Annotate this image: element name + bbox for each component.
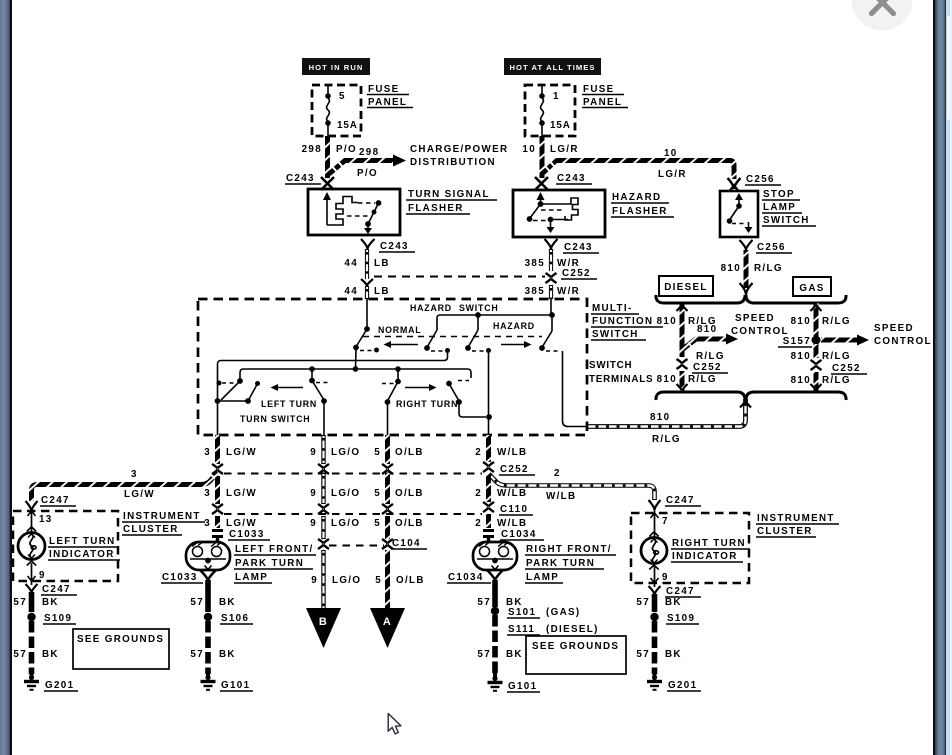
connector C256 label (above stop lamp switch) xyxy=(745,174,781,185)
svg-text:385: 385 xyxy=(525,258,545,269)
svg-text:BK: BK xyxy=(42,597,59,608)
svg-text:2: 2 xyxy=(475,488,482,499)
svg-text:C247: C247 xyxy=(666,495,695,506)
splice S106 label xyxy=(220,613,253,624)
label LEFT TURN INDICATOR xyxy=(48,536,120,560)
svg-text:1: 1 xyxy=(553,91,560,102)
wire 810 R/LG from brace down to multifunction switch xyxy=(586,399,751,427)
svg-text:5: 5 xyxy=(374,447,381,458)
svg-text:C243: C243 xyxy=(564,242,593,253)
svg-text:810: 810 xyxy=(657,374,677,385)
wire label 10 xyxy=(522,144,536,155)
pin label 13 xyxy=(39,514,53,525)
wire label P/O (branch) xyxy=(357,168,378,179)
dashed interconnect row 2 xyxy=(224,513,482,515)
turn switch contact R1 xyxy=(382,369,401,405)
wire 810 R/LG from stop lamp switch xyxy=(740,250,753,295)
svg-text:C247: C247 xyxy=(42,584,71,595)
connector C252 label (W/LB) xyxy=(499,464,535,475)
label LEFT FRONT/ PARK TURN LAMP xyxy=(234,544,316,583)
svg-text:LG/R: LG/R xyxy=(658,169,687,180)
wire out of right cluster + pin 9 xyxy=(651,565,659,587)
connector C110 label xyxy=(499,504,533,515)
connector C243 label below flasher xyxy=(379,241,415,252)
wire 810 R/LG gas column middle xyxy=(814,344,819,358)
svg-text:CLUSTER: CLUSTER xyxy=(757,526,813,537)
turn switch contact L1 xyxy=(217,378,243,400)
svg-text:LB: LB xyxy=(374,286,390,297)
svg-text:57: 57 xyxy=(190,649,204,660)
wire label 57 (lamp upper) xyxy=(190,597,204,608)
wire 2 W/LB jog to right C247 xyxy=(489,474,655,500)
svg-text:2: 2 xyxy=(475,518,482,529)
svg-text:R/LG: R/LG xyxy=(822,316,851,327)
wire 2 W/LB column segment 2 xyxy=(486,474,491,502)
svg-text:FUSE: FUSE xyxy=(368,84,400,95)
svg-text:S109: S109 xyxy=(44,613,72,624)
wire 3 LG/W column segment 1 xyxy=(215,435,220,464)
label STOP LAMP SWITCH xyxy=(762,189,816,226)
svg-text:INDICATOR: INDICATOR xyxy=(49,549,115,560)
turn switch contact L2 xyxy=(309,369,329,404)
wire label 57 (left cluster lower) xyxy=(13,649,27,660)
svg-text:W/LB: W/LB xyxy=(497,447,527,458)
value label 15A (right) xyxy=(550,120,571,131)
wire label 810 (gas middle) xyxy=(791,351,811,362)
svg-text:CLUSTER: CLUSTER xyxy=(123,524,179,535)
wire labels 9 LG/O rows xyxy=(310,447,361,586)
connector C243 X symbol (hazard) xyxy=(535,177,548,190)
wire LG/O exit inside box xyxy=(323,401,325,435)
splice S109 dot (right) xyxy=(650,613,658,621)
connector symbol on LB wire xyxy=(361,279,373,286)
svg-text:5: 5 xyxy=(339,91,346,102)
wire arrow to speed control (gas) xyxy=(821,335,869,346)
switch contact B xyxy=(424,330,450,353)
connector C256 Y symbol below stop lamp switch xyxy=(740,240,753,250)
svg-text:DIESEL: DIESEL xyxy=(664,282,708,293)
connector symbol LG/W row2 xyxy=(212,504,223,514)
splice S109 label (left) xyxy=(43,613,76,624)
svg-text:C252: C252 xyxy=(562,268,591,279)
svg-text:C1033: C1033 xyxy=(162,572,198,583)
svg-text:PANEL: PANEL xyxy=(368,97,407,108)
value label 15A xyxy=(337,120,358,131)
wire label BK (lamp upper) xyxy=(219,597,236,608)
wire 3 LG/W column segment 3 xyxy=(215,516,220,528)
svg-text:3: 3 xyxy=(131,469,138,480)
svg-text:5: 5 xyxy=(374,518,381,529)
wire normal output run (line A) xyxy=(218,351,448,400)
svg-text:LG/O: LG/O xyxy=(331,447,360,458)
connector C243 label (left) xyxy=(285,173,321,184)
svg-text:LAMP: LAMP xyxy=(526,572,559,583)
svg-text:10: 10 xyxy=(522,144,536,155)
wire label R/LG (diesel arrow) xyxy=(696,351,725,362)
wire label 810 (diesel upper) xyxy=(657,316,677,327)
wire label P/O xyxy=(336,144,357,155)
connector C1034 label xyxy=(500,529,544,540)
wire hazard output to W/LB column xyxy=(488,351,490,435)
wire label W/LB (row 2) xyxy=(497,488,527,499)
splice S101 dot xyxy=(491,607,499,615)
stop lamp switch internals xyxy=(727,193,753,233)
svg-text:DISTRIBUTION: DISTRIBUTION xyxy=(410,157,496,168)
wire 57 BK (left lamp lower) xyxy=(205,621,211,674)
label SPEED CONTROL (right) xyxy=(874,323,932,347)
svg-text:LAMP: LAMP xyxy=(763,202,796,213)
wire label 810 (diesel lower) xyxy=(657,374,677,385)
wire branch 10 LG/R to stop lamp switch xyxy=(543,161,734,180)
left turn indicator lamp xyxy=(18,527,45,566)
pin label 1 xyxy=(553,91,560,102)
fuse 1 15A symbol xyxy=(539,85,545,136)
label SPEED CONTROL (center) xyxy=(731,313,789,337)
connector C247 label (right jog) xyxy=(665,495,701,506)
wire label BK (left cluster upper) xyxy=(42,597,59,608)
svg-text:57: 57 xyxy=(477,649,491,660)
wire label 385 (second) xyxy=(525,286,545,297)
svg-text:LAMP: LAMP xyxy=(235,572,268,583)
svg-text:CHARGE/POWER: CHARGE/POWER xyxy=(410,144,508,155)
dashed interconnect C104 row xyxy=(329,545,384,547)
svg-text:298: 298 xyxy=(302,144,322,155)
wire label LG/R (branch) xyxy=(658,169,687,180)
svg-text:2: 2 xyxy=(554,468,561,479)
connector C104 label xyxy=(391,538,427,549)
svg-text:INSTRUMENT: INSTRUMENT xyxy=(757,513,835,524)
right turn indicator lamp xyxy=(641,532,667,570)
fuse 5 15A symbol xyxy=(325,85,331,136)
brace bottom of speed control section xyxy=(656,392,846,400)
power label HOT IN RUN xyxy=(302,58,370,75)
arrow A (to rear lamps) xyxy=(370,608,405,648)
wire label 810 (gas upper) xyxy=(791,316,811,327)
wire 385 W/R upper segment xyxy=(549,249,553,271)
svg-text:810: 810 xyxy=(721,263,741,274)
connector C247 label (left jog) xyxy=(40,495,76,506)
svg-text:G201: G201 xyxy=(668,680,697,691)
svg-text:9: 9 xyxy=(310,518,317,529)
wire label 57 (right lamp upper) xyxy=(477,597,491,608)
label box DIESEL xyxy=(659,276,713,296)
connector C247 Y symbol (left) xyxy=(26,501,38,511)
svg-text:SEE GROUNDS: SEE GROUNDS xyxy=(532,641,619,652)
svg-text:R/LG: R/LG xyxy=(822,351,851,362)
svg-text:RIGHT FRONT/: RIGHT FRONT/ xyxy=(526,544,612,555)
pin label 9 (right cluster) xyxy=(662,572,669,583)
label box GAS xyxy=(793,277,831,296)
svg-text:C252: C252 xyxy=(832,363,861,374)
wire label 810 (bottom run) xyxy=(650,412,670,423)
svg-text:O/LB: O/LB xyxy=(395,447,424,458)
svg-text:810: 810 xyxy=(791,316,811,327)
svg-text:LG/W: LG/W xyxy=(226,447,257,458)
turn signal flasher internals xyxy=(323,192,381,234)
connector C247 Y below right cluster xyxy=(649,586,661,595)
connector C247 label below right cluster xyxy=(665,586,701,597)
label SWITCH TERMINALS xyxy=(589,360,653,385)
svg-text:9: 9 xyxy=(310,447,317,458)
wire 57 BK (left cluster lower) xyxy=(29,621,35,674)
svg-text:STOP: STOP xyxy=(763,189,795,200)
instrument cluster dashed box (left) xyxy=(13,511,118,581)
dashed interconnect between LB and W/R wires xyxy=(374,276,545,278)
svg-text:C252: C252 xyxy=(693,362,722,373)
wire label W/R xyxy=(557,258,580,269)
svg-text:G201: G201 xyxy=(45,680,74,691)
switch contact A (normal feed) xyxy=(353,329,379,369)
arrow left (hazard switch normal) xyxy=(384,341,419,348)
svg-text:BK: BK xyxy=(219,597,236,608)
connector symbols LG/O column xyxy=(318,464,329,549)
wire label W/R (second) xyxy=(557,286,580,297)
svg-text:3: 3 xyxy=(204,518,211,529)
connector Y below left lamp xyxy=(201,571,216,582)
wire labels 5 O/LB rows xyxy=(374,447,425,586)
label RIGHT TURN INDICATOR xyxy=(671,538,750,562)
svg-text:BK: BK xyxy=(42,649,59,660)
dashed normal/hazard line xyxy=(363,336,542,338)
wire label BK (left cluster lower) xyxy=(42,649,59,660)
svg-text:BK: BK xyxy=(506,649,523,660)
svg-text:HAZARD: HAZARD xyxy=(410,303,452,313)
svg-text:57: 57 xyxy=(190,597,204,608)
wire out of left cluster + pin 9 xyxy=(28,563,36,585)
svg-text:INDICATOR: INDICATOR xyxy=(672,551,738,562)
wire 385 W/R lower segment xyxy=(549,285,553,299)
svg-text:A: A xyxy=(383,616,392,628)
svg-text:FUSE: FUSE xyxy=(583,84,615,95)
pin label 5 xyxy=(339,91,346,102)
wire 810 R/LG diesel column lower xyxy=(677,371,688,392)
wire 57 BK (right lamp upper) xyxy=(492,580,498,607)
wire 57 BK (right lamp lower) xyxy=(492,615,498,675)
wire label 810 (gas lower) xyxy=(791,375,811,386)
svg-text:44: 44 xyxy=(344,286,358,297)
connector symbol LG/W row1 xyxy=(212,464,223,474)
wire arrow 810 R/LG to speed control (diesel) xyxy=(683,334,738,350)
svg-text:810: 810 xyxy=(657,316,677,327)
ground G201 label (left) xyxy=(44,680,78,691)
svg-text:R/LG: R/LG xyxy=(822,375,851,386)
wire 9 LG/O column xyxy=(321,435,325,612)
wire 3 LG/W column segment 2 xyxy=(215,476,220,504)
connector C252 label on W/R wire xyxy=(561,268,597,279)
wire 2 W/LB column segment 3 xyxy=(486,514,491,528)
label MULTI-FUNCTION SWITCH xyxy=(591,303,663,340)
svg-text:BK: BK xyxy=(219,649,236,660)
label FUSE PANEL (right) xyxy=(582,84,628,108)
svg-text:HAZARD: HAZARD xyxy=(493,321,535,331)
wire fuse5 to C243 (P/O 298) xyxy=(325,136,330,178)
wire LB entry into switch xyxy=(364,299,370,332)
power label HOT AT ALL TIMES xyxy=(504,58,601,75)
wire 810 R/LG diesel column upper xyxy=(677,303,688,357)
svg-text:LG/O: LG/O xyxy=(331,488,360,499)
wire fuse1 to C243 (LG/R 10) xyxy=(540,136,545,178)
label TURN SIGNAL FLASHER xyxy=(406,189,497,214)
svg-text:W/LB: W/LB xyxy=(497,518,527,529)
hazard flasher internals xyxy=(527,192,578,233)
wire O/LB exit inside box xyxy=(387,402,389,435)
label LEFT TURN xyxy=(261,399,317,409)
wire 810 R/LG gas column lower xyxy=(811,372,822,392)
close button xyxy=(852,0,913,31)
svg-text:MULTI-: MULTI- xyxy=(592,303,633,314)
connector Y below right lamp xyxy=(488,571,503,582)
label HAZARD (position) xyxy=(493,321,535,331)
svg-text:B: B xyxy=(319,616,328,628)
connector C252 symbol (diesel) xyxy=(677,359,688,369)
wire LG/W exit inside box xyxy=(217,401,219,435)
wire label 57 (right lamp lower) xyxy=(477,649,491,660)
svg-text:LG/O: LG/O xyxy=(331,518,360,529)
connector C1034 inline bars xyxy=(483,531,494,544)
wire label LG/W (jog) xyxy=(124,489,155,500)
svg-text:TURN SIGNAL: TURN SIGNAL xyxy=(408,189,490,200)
svg-text:HAZARD: HAZARD xyxy=(612,192,661,203)
svg-text:9: 9 xyxy=(662,572,669,583)
splice S157 label xyxy=(778,336,812,347)
connector C252 label (diesel) xyxy=(692,362,728,373)
wire label 2 (row 1) xyxy=(475,447,482,458)
wire 44 LB upper segment xyxy=(365,249,369,279)
svg-text:HOT IN RUN: HOT IN RUN xyxy=(309,63,364,72)
svg-text:P/O: P/O xyxy=(357,168,378,179)
svg-text:S106: S106 xyxy=(221,613,249,624)
connector C252 label (gas) xyxy=(831,363,867,374)
svg-text:PARK TURN: PARK TURN xyxy=(526,558,595,569)
svg-text:LG/O: LG/O xyxy=(332,575,361,586)
svg-text:O/LB: O/LB xyxy=(395,518,424,529)
svg-text:LEFT TURN: LEFT TURN xyxy=(49,536,116,547)
stop lamp switch box xyxy=(720,191,758,237)
wire label R/LG (gas lower) xyxy=(822,375,851,386)
connector C1033 label (below lamp) xyxy=(161,572,203,583)
instrument cluster dashed box (right) xyxy=(631,513,749,583)
label FUSE PANEL (left) xyxy=(367,84,413,108)
svg-text:7: 7 xyxy=(662,516,669,527)
wire 57 BK (left cluster upper) xyxy=(29,592,35,612)
svg-text:SWITCH: SWITCH xyxy=(592,329,639,340)
fuse panel box (right, fuse 1) xyxy=(525,85,575,136)
svg-text:SEE GROUNDS: SEE GROUNDS xyxy=(77,634,164,645)
svg-text:LG/R: LG/R xyxy=(550,144,579,155)
svg-text:298: 298 xyxy=(359,147,379,158)
wire label R/LG (diesel lower) xyxy=(688,374,717,385)
arrow right (hazard switch) xyxy=(501,341,532,348)
svg-text:O/LB: O/LB xyxy=(396,575,425,586)
wire label LG/R xyxy=(550,144,579,155)
window right bars xyxy=(933,0,935,755)
svg-text:S101: S101 xyxy=(508,607,536,618)
svg-text:S157: S157 xyxy=(783,336,811,347)
wire label R/LG (bottom run) xyxy=(652,434,681,445)
connector C247 Y symbol (right) xyxy=(649,500,661,510)
label HAZARD SWITCH xyxy=(410,303,499,313)
svg-text:CONTROL: CONTROL xyxy=(731,326,789,337)
wire label 44 (second) xyxy=(344,286,358,297)
svg-text:SPEED: SPEED xyxy=(735,313,775,324)
connector C247 Y below left cluster xyxy=(26,584,38,593)
svg-text:13: 13 xyxy=(39,514,53,525)
svg-text:(GAS): (GAS) xyxy=(546,607,581,618)
wire label 57 (lamp lower) xyxy=(190,649,204,660)
fuse panel box (left, fuse 5) xyxy=(312,85,361,136)
wire label W/LB (jog) xyxy=(546,491,576,502)
wire label 44 xyxy=(344,258,358,269)
splice S109 dot (left) xyxy=(27,613,35,621)
window left bar xyxy=(0,0,10,755)
ground G101 (left lamp) xyxy=(201,672,216,690)
svg-text:C243: C243 xyxy=(380,241,409,252)
svg-text:C243: C243 xyxy=(557,173,586,184)
svg-text:3: 3 xyxy=(204,447,211,458)
arrow right (turn switch) xyxy=(405,384,437,391)
svg-text:2: 2 xyxy=(475,447,482,458)
see grounds box (left) xyxy=(73,629,169,669)
svg-text:R/LG: R/LG xyxy=(688,374,717,385)
svg-text:BK: BK xyxy=(665,597,682,608)
svg-text:O/LB: O/LB xyxy=(395,488,424,499)
svg-text:385: 385 xyxy=(525,286,545,297)
wire label 3 (jog) xyxy=(131,469,138,480)
svg-text:FLASHER: FLASHER xyxy=(612,206,668,217)
switch contact D (hazard to 810) xyxy=(539,315,586,427)
ground G101 label (left lamp) xyxy=(220,680,253,691)
svg-text:R/LG: R/LG xyxy=(754,263,783,274)
svg-text:LG/W: LG/W xyxy=(226,518,257,529)
svg-text:LB: LB xyxy=(374,258,390,269)
label INSTRUMENT CLUSTER (right) xyxy=(756,513,839,537)
ground G101 label (right lamp) xyxy=(507,681,540,692)
arrow B (to rear lamps) xyxy=(306,608,341,648)
svg-text:R/LG: R/LG xyxy=(652,434,681,445)
svg-text:57: 57 xyxy=(477,597,491,608)
multi-function switch dashed box xyxy=(198,299,587,435)
wire label 385 xyxy=(525,258,545,269)
wire label R/LG (stop lamp) xyxy=(754,263,783,274)
svg-text:SWITCH: SWITCH xyxy=(589,360,632,371)
wire label 810 (diesel arrow) xyxy=(697,324,717,335)
label CHARGE/POWER DISTRIBUTION xyxy=(410,144,508,168)
left front park/turn lamp xyxy=(186,542,230,570)
svg-text:C256: C256 xyxy=(757,242,786,253)
svg-text:LEFT FRONT/: LEFT FRONT/ xyxy=(235,544,314,555)
wire label BK (right lamp upper) xyxy=(506,597,523,608)
wire label 57 (right cluster lower) xyxy=(636,649,650,660)
svg-text:C1034: C1034 xyxy=(448,572,484,583)
ground G101 (right lamp) xyxy=(488,673,503,691)
wire into right cluster + pin 7 xyxy=(651,510,659,537)
svg-text:LG/W: LG/W xyxy=(124,489,155,500)
svg-text:TURN SWITCH: TURN SWITCH xyxy=(240,414,310,424)
svg-text:C252: C252 xyxy=(500,464,529,475)
svg-text:57: 57 xyxy=(13,649,27,660)
connector C252 symbol on W/R wire xyxy=(546,273,557,283)
svg-text:BK: BK xyxy=(665,649,682,660)
wire 3 LG/W jog to left C247 xyxy=(32,472,218,501)
pin label 7 xyxy=(662,516,669,527)
svg-text:5: 5 xyxy=(374,488,381,499)
connector C110 symbol xyxy=(483,502,494,512)
svg-text:9: 9 xyxy=(311,575,318,586)
connector C252 symbol (W/LB) xyxy=(483,462,494,472)
wire branch to charge/power distribution xyxy=(329,155,406,175)
splice S106 dot xyxy=(204,613,212,621)
wire 57 BK (left lamp upper) xyxy=(205,580,211,612)
